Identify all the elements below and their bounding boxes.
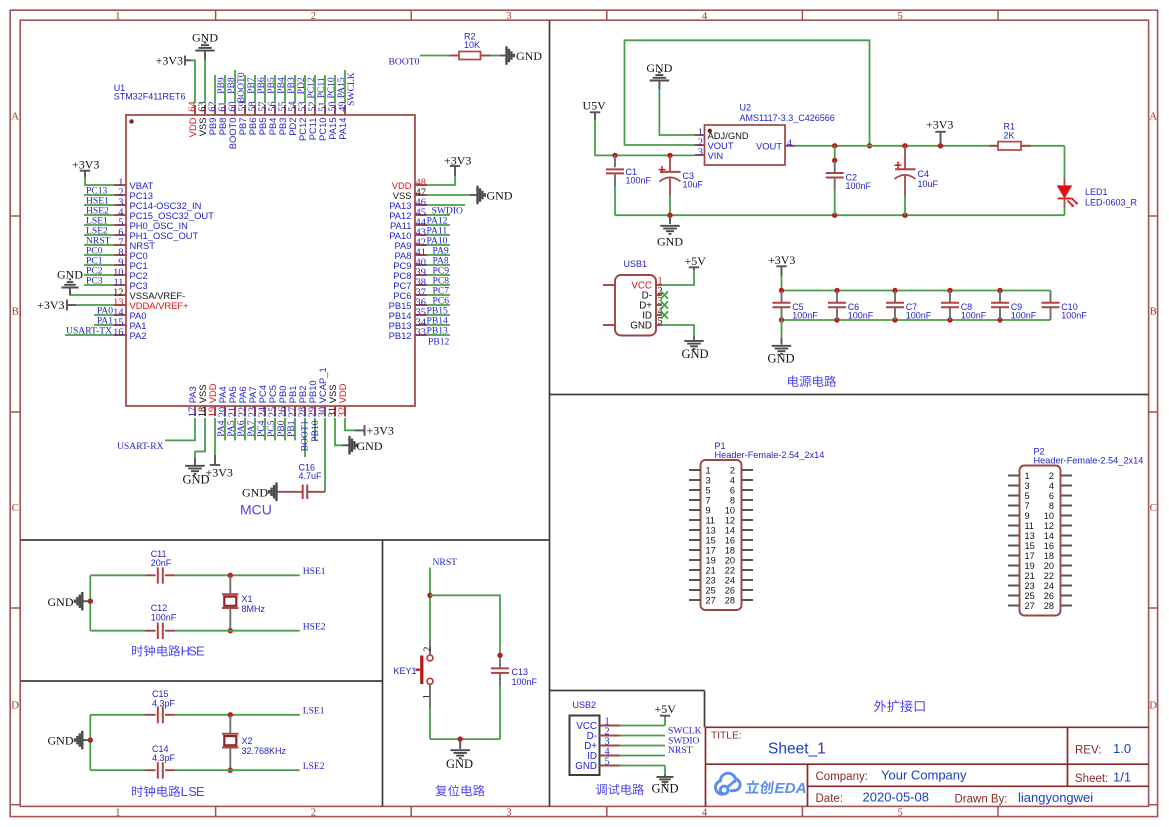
svg-text:5: 5 bbox=[1025, 491, 1030, 501]
wire bbox=[427, 224, 450, 226]
svg-text:14: 14 bbox=[1044, 531, 1054, 541]
svg-text:MCU: MCU bbox=[240, 502, 272, 518]
svg-text:GND: GND bbox=[767, 351, 794, 365]
junction bbox=[892, 317, 897, 322]
wire bbox=[427, 254, 450, 256]
capacitor C1 bbox=[606, 155, 652, 186]
svg-text:1/1: 1/1 bbox=[1113, 769, 1131, 784]
wire bbox=[84, 244, 114, 246]
power +3V3 at pin1 bbox=[72, 157, 99, 177]
wire bbox=[84, 194, 114, 196]
capacitor C16 bbox=[277, 463, 325, 499]
wire bbox=[620, 725, 666, 727]
svg-text:2K: 2K bbox=[1004, 131, 1015, 141]
svg-text:12: 12 bbox=[1044, 521, 1054, 531]
wire bbox=[427, 194, 470, 196]
svg-text:4: 4 bbox=[730, 475, 735, 485]
wire bbox=[90, 714, 145, 716]
svg-text:16: 16 bbox=[113, 328, 123, 339]
svg-text:+3V3: +3V3 bbox=[37, 298, 64, 312]
wire bbox=[254, 75, 256, 103]
label 外扩接口 bbox=[874, 700, 886, 712]
svg-text:STM32F411RET6: STM32F411RET6 bbox=[114, 92, 186, 102]
wire bbox=[234, 418, 236, 440]
svg-text:2: 2 bbox=[1049, 471, 1054, 481]
wire bbox=[420, 55, 449, 57]
svg-text:NRST: NRST bbox=[668, 745, 693, 756]
ground GND at KEY1 bbox=[446, 739, 473, 771]
junction bbox=[832, 143, 837, 148]
svg-text:PA14: PA14 bbox=[337, 118, 348, 140]
wire bbox=[427, 334, 450, 336]
svg-text:+5V: +5V bbox=[685, 254, 707, 268]
junction bbox=[88, 737, 93, 742]
svg-text:3: 3 bbox=[706, 475, 711, 485]
wire bbox=[234, 70, 236, 103]
svg-text:24: 24 bbox=[725, 575, 735, 585]
header P1 bbox=[689, 441, 824, 610]
crystal X1 bbox=[222, 575, 266, 630]
svg-text:4: 4 bbox=[702, 806, 708, 818]
divider vertical clock/reset bbox=[382, 540, 384, 806]
svg-text:HSE2: HSE2 bbox=[303, 621, 326, 632]
svg-text:PB1: PB1 bbox=[286, 420, 297, 437]
wire bbox=[620, 755, 666, 757]
svg-text:18: 18 bbox=[725, 545, 735, 555]
svg-text:8: 8 bbox=[1049, 501, 1054, 511]
svg-text:E: E bbox=[196, 784, 205, 799]
wire bbox=[254, 418, 256, 440]
capacitor C13 bbox=[491, 660, 538, 687]
wire bbox=[614, 186, 616, 215]
divider horizontal power/headers bbox=[550, 394, 1149, 396]
svg-text:GND: GND bbox=[681, 347, 708, 361]
resistor R2 bbox=[449, 32, 491, 60]
wire bbox=[244, 75, 246, 103]
junction bbox=[834, 317, 839, 322]
svg-text:USART-TX: USART-TX bbox=[66, 326, 112, 337]
svg-text:VDD: VDD bbox=[337, 383, 348, 403]
divider horizontal mcu/clock bbox=[21, 539, 550, 541]
power +5V at USB1 bbox=[685, 254, 707, 270]
svg-text:PA2: PA2 bbox=[130, 330, 147, 341]
svg-text:KEY1: KEY1 bbox=[394, 666, 417, 676]
wire bbox=[244, 418, 246, 440]
svg-text:GND: GND bbox=[516, 49, 542, 63]
svg-text:13: 13 bbox=[706, 525, 716, 535]
svg-text:32.768KHz: 32.768KHz bbox=[242, 746, 287, 756]
wire bbox=[165, 418, 195, 440]
wire bbox=[175, 630, 299, 632]
svg-text:7: 7 bbox=[1025, 501, 1030, 511]
svg-text:100nF: 100nF bbox=[1061, 311, 1087, 321]
svg-text:22: 22 bbox=[725, 565, 735, 575]
svg-text:10uF: 10uF bbox=[918, 179, 939, 189]
wire bbox=[175, 574, 299, 576]
divider vertical debug/title bbox=[704, 691, 706, 728]
ground GND flag at pin31 bbox=[342, 436, 383, 455]
header P2 bbox=[1008, 447, 1143, 616]
power U5V bbox=[583, 98, 607, 120]
svg-text:8MHz: 8MHz bbox=[242, 604, 266, 614]
wire bbox=[94, 314, 114, 316]
junction bbox=[832, 158, 837, 163]
svg-text:LED-0603_R: LED-0603_R bbox=[1085, 197, 1138, 207]
divider horizontal hse/lse bbox=[21, 680, 383, 682]
svg-text:23: 23 bbox=[1025, 581, 1035, 591]
wire bbox=[904, 196, 906, 215]
junction bbox=[834, 288, 839, 293]
svg-text:Sheet_1: Sheet_1 bbox=[768, 741, 826, 758]
wire bbox=[214, 418, 216, 455]
ground GND at U2 pin1 bbox=[646, 61, 672, 89]
wire bbox=[664, 717, 666, 726]
svg-text:C4: C4 bbox=[918, 169, 930, 179]
svg-text:4: 4 bbox=[1049, 481, 1054, 491]
junction bbox=[458, 736, 463, 741]
wire bbox=[85, 177, 114, 185]
svg-text:13: 13 bbox=[1025, 531, 1035, 541]
wire bbox=[491, 55, 501, 57]
wire bbox=[84, 284, 114, 286]
title block grid bbox=[706, 727, 1149, 806]
wire bbox=[427, 304, 450, 306]
svg-text:LSE2: LSE2 bbox=[303, 761, 325, 772]
svg-text:GND: GND bbox=[48, 595, 74, 609]
svg-text:B: B bbox=[12, 306, 19, 318]
svg-text:GND: GND bbox=[192, 31, 218, 45]
wire bbox=[90, 769, 145, 771]
svg-text:23: 23 bbox=[706, 575, 716, 585]
svg-text:2020-05-08: 2020-05-08 bbox=[863, 790, 930, 805]
junction bbox=[667, 213, 672, 218]
wire bbox=[324, 418, 326, 492]
resistor R1 bbox=[990, 121, 1031, 150]
wire bbox=[345, 418, 355, 430]
junction bbox=[779, 288, 784, 293]
svg-text:A: A bbox=[11, 110, 19, 122]
junction bbox=[902, 213, 907, 218]
svg-text:20: 20 bbox=[1044, 561, 1054, 571]
wire bbox=[620, 745, 666, 747]
svg-text:1: 1 bbox=[115, 10, 120, 22]
capacitor C6 bbox=[828, 291, 874, 321]
svg-text:A: A bbox=[1149, 110, 1157, 122]
svg-text:20: 20 bbox=[725, 555, 735, 565]
svg-text:6: 6 bbox=[730, 485, 735, 495]
junction bbox=[228, 768, 233, 773]
wire bbox=[595, 120, 695, 155]
svg-text:32: 32 bbox=[337, 407, 348, 417]
power +3V3 at VOUT bbox=[926, 117, 953, 145]
svg-text:5: 5 bbox=[897, 806, 902, 818]
svg-text:2: 2 bbox=[311, 10, 316, 22]
crystal X2 bbox=[222, 715, 287, 770]
svg-text:Date:: Date: bbox=[816, 793, 844, 805]
svg-text:22: 22 bbox=[1044, 571, 1054, 581]
wire bbox=[324, 75, 326, 103]
wire bbox=[782, 290, 1051, 292]
svg-text:1: 1 bbox=[706, 465, 711, 475]
svg-text:100nF: 100nF bbox=[961, 311, 987, 321]
power +3V3 at pin48 bbox=[444, 154, 471, 176]
wire bbox=[620, 735, 666, 737]
wire bbox=[76, 304, 114, 306]
wire bbox=[214, 75, 216, 103]
power +3V3 at pin32 bbox=[355, 424, 394, 438]
svg-text:+3V3: +3V3 bbox=[72, 157, 99, 171]
svg-text:4.3pF: 4.3pF bbox=[152, 753, 176, 763]
svg-text:L: L bbox=[181, 784, 188, 799]
wire bbox=[334, 75, 336, 103]
wire bbox=[834, 146, 836, 161]
wire bbox=[427, 274, 450, 276]
wire bbox=[304, 75, 306, 103]
wire bbox=[84, 224, 114, 226]
svg-text:GND: GND bbox=[651, 781, 678, 795]
svg-text:USART-RX: USART-RX bbox=[117, 441, 164, 452]
ground GND below C5 bbox=[767, 320, 794, 365]
svg-text:16: 16 bbox=[1044, 541, 1054, 551]
wire bbox=[430, 595, 500, 660]
wire bbox=[430, 738, 500, 740]
wire bbox=[84, 204, 114, 206]
junction bbox=[832, 213, 837, 218]
svg-text:C: C bbox=[1150, 502, 1157, 514]
svg-text:15: 15 bbox=[706, 535, 716, 545]
svg-text:14: 14 bbox=[725, 525, 735, 535]
svg-text:100nF: 100nF bbox=[846, 181, 872, 191]
svg-text:3: 3 bbox=[506, 806, 511, 818]
svg-text:28: 28 bbox=[1044, 601, 1054, 611]
ground GND flag at LSE bbox=[48, 731, 91, 750]
svg-text:2: 2 bbox=[423, 647, 434, 652]
wire bbox=[429, 708, 431, 740]
wire bbox=[664, 766, 666, 775]
svg-text:26: 26 bbox=[725, 585, 735, 595]
wire bbox=[427, 204, 465, 206]
wire bbox=[175, 714, 299, 716]
ground GND at pin18 bbox=[182, 458, 209, 487]
wire bbox=[264, 418, 266, 440]
capacitor C5 bbox=[773, 291, 819, 321]
svg-text:27: 27 bbox=[706, 595, 716, 605]
wire bbox=[84, 214, 114, 216]
svg-text:Sheet:: Sheet: bbox=[1075, 773, 1108, 785]
svg-text:+3V3: +3V3 bbox=[156, 54, 183, 68]
wire bbox=[427, 314, 450, 316]
ground GND below C3 bbox=[657, 215, 683, 248]
wire bbox=[662, 270, 694, 285]
wire bbox=[427, 284, 450, 286]
svg-text:GND: GND bbox=[630, 321, 652, 332]
svg-text:VIN: VIN bbox=[708, 150, 724, 161]
junction bbox=[228, 573, 233, 578]
wire bbox=[335, 418, 342, 445]
label 调试电路 bbox=[596, 784, 607, 795]
svg-text:HSE1: HSE1 bbox=[303, 566, 326, 577]
wire bbox=[782, 319, 1051, 321]
svg-text:U2: U2 bbox=[740, 103, 752, 113]
svg-text:28: 28 bbox=[725, 595, 735, 605]
junction bbox=[997, 317, 1002, 322]
wire bbox=[427, 234, 450, 236]
svg-text:3: 3 bbox=[506, 10, 511, 22]
capacitor C15 bbox=[145, 689, 176, 723]
ground GND at USB2 bbox=[651, 775, 678, 796]
junction bbox=[427, 593, 432, 598]
junction bbox=[938, 143, 943, 148]
junction bbox=[228, 628, 233, 633]
svg-text:USB1: USB1 bbox=[624, 259, 648, 269]
wire bbox=[429, 568, 431, 640]
svg-text:PB13: PB13 bbox=[427, 326, 449, 337]
svg-text:GND: GND bbox=[242, 485, 268, 499]
svg-text:BOOT0: BOOT0 bbox=[389, 56, 420, 67]
svg-text:25: 25 bbox=[706, 585, 716, 595]
svg-text:+3V3: +3V3 bbox=[444, 154, 471, 168]
svg-text:LED1: LED1 bbox=[1085, 187, 1108, 197]
svg-text:11: 11 bbox=[706, 515, 716, 525]
svg-text:2: 2 bbox=[730, 465, 735, 475]
wire bbox=[427, 294, 450, 296]
svg-text:Company:: Company: bbox=[816, 771, 868, 783]
junction bbox=[88, 599, 93, 604]
wire bbox=[625, 40, 870, 146]
wire bbox=[264, 75, 266, 103]
wire bbox=[659, 89, 694, 135]
svg-text:15: 15 bbox=[1025, 541, 1035, 551]
ground GND flag at HSE bbox=[48, 592, 91, 611]
svg-text:17: 17 bbox=[706, 545, 716, 555]
svg-text:Header-Female-2.54_2x14: Header-Female-2.54_2x14 bbox=[1034, 456, 1144, 466]
svg-text:5: 5 bbox=[706, 485, 711, 495]
capacitor C3 bbox=[659, 155, 704, 196]
svg-text:Your Company: Your Company bbox=[881, 768, 967, 783]
capacitor C4 bbox=[895, 146, 939, 196]
svg-text:+3V3: +3V3 bbox=[768, 253, 795, 267]
capacitor C12 bbox=[145, 603, 177, 639]
power +3V3 at pin64 bbox=[156, 54, 191, 68]
wire bbox=[1064, 146, 1066, 178]
power +3V3 at rail bbox=[768, 253, 795, 276]
wire bbox=[89, 715, 91, 770]
ground GND flag at R2 bbox=[500, 46, 542, 65]
wire bbox=[499, 686, 501, 739]
power +3V3 at pin19 bbox=[206, 455, 233, 479]
wire bbox=[89, 575, 91, 630]
svg-text:10K: 10K bbox=[464, 40, 480, 50]
wire bbox=[427, 264, 450, 266]
svg-text:SWCLK: SWCLK bbox=[346, 72, 357, 106]
svg-text:PC3: PC3 bbox=[86, 276, 103, 287]
wire bbox=[669, 196, 671, 215]
wire bbox=[834, 190, 836, 215]
wire bbox=[224, 418, 226, 440]
svg-text:21: 21 bbox=[706, 565, 716, 575]
svg-text:10: 10 bbox=[1044, 511, 1054, 521]
regulator U2 AMS1117-3.3 bbox=[695, 103, 835, 165]
wire bbox=[204, 60, 206, 103]
wire bbox=[284, 75, 286, 103]
svg-text:24: 24 bbox=[1044, 581, 1054, 591]
divider vertical mcu/power bbox=[549, 20, 551, 806]
svg-text:17: 17 bbox=[1025, 551, 1035, 561]
svg-text:100nF: 100nF bbox=[1011, 311, 1037, 321]
wire bbox=[70, 289, 114, 296]
svg-text:GND: GND bbox=[575, 761, 597, 772]
ground GND at pin12 bbox=[57, 267, 83, 295]
svg-text:USB2: USB2 bbox=[573, 700, 597, 710]
wire bbox=[294, 418, 296, 440]
svg-text:PB10: PB10 bbox=[310, 420, 321, 442]
frame row letters bbox=[11, 110, 1157, 711]
svg-text:1: 1 bbox=[115, 806, 120, 818]
svg-text:X2: X2 bbox=[242, 736, 253, 746]
svg-text:GND: GND bbox=[48, 734, 74, 748]
usb connector USB1 bbox=[603, 259, 668, 335]
mcu U1 STM32F411RET6 bbox=[113, 83, 427, 417]
svg-text:12: 12 bbox=[725, 515, 735, 525]
ground GND at USB1 bbox=[681, 336, 708, 361]
svg-text:20nF: 20nF bbox=[151, 558, 172, 568]
svg-text:3: 3 bbox=[1025, 481, 1030, 491]
svg-text:5: 5 bbox=[605, 756, 610, 767]
wire bbox=[195, 418, 205, 458]
svg-text:E: E bbox=[196, 644, 205, 659]
led LED1 bbox=[1058, 178, 1138, 208]
svg-text:C13: C13 bbox=[512, 667, 529, 677]
svg-text:3: 3 bbox=[698, 148, 703, 159]
capacitor C2 bbox=[826, 161, 872, 191]
svg-text:TITLE:: TITLE: bbox=[711, 731, 742, 742]
svg-text:9: 9 bbox=[1025, 511, 1030, 521]
svg-text:25: 25 bbox=[1025, 591, 1035, 601]
svg-text:19: 19 bbox=[706, 555, 716, 565]
junction bbox=[228, 712, 233, 717]
logo EasyEDA bbox=[715, 773, 806, 797]
svg-text:4: 4 bbox=[702, 10, 708, 22]
svg-text:1: 1 bbox=[1025, 471, 1030, 481]
usb connector USB2 bbox=[570, 700, 620, 775]
svg-text:D: D bbox=[1149, 700, 1157, 712]
junction bbox=[947, 317, 952, 322]
svg-text:+3V3: +3V3 bbox=[367, 424, 394, 438]
svg-text:100nF: 100nF bbox=[626, 176, 652, 186]
svg-text:GND: GND bbox=[487, 189, 513, 203]
svg-text:GND: GND bbox=[57, 267, 83, 281]
wire bbox=[84, 274, 114, 276]
capacitor C10 bbox=[1042, 291, 1088, 321]
capacitor C8 bbox=[941, 291, 987, 321]
wire bbox=[314, 75, 316, 103]
svg-text:U5V: U5V bbox=[583, 98, 607, 112]
wire bbox=[90, 630, 145, 632]
junction bbox=[997, 288, 1002, 293]
wire bbox=[344, 70, 346, 103]
svg-text:C: C bbox=[12, 502, 19, 514]
wire bbox=[94, 324, 114, 326]
svg-text:VOUT: VOUT bbox=[756, 141, 782, 152]
power +5V at USB2 bbox=[655, 702, 677, 717]
wire bbox=[427, 324, 450, 326]
svg-text:PB12: PB12 bbox=[389, 330, 412, 341]
svg-text:4.7uF: 4.7uF bbox=[299, 471, 323, 481]
divider horizontal headers/debug bbox=[550, 690, 705, 692]
svg-text:LSE1: LSE1 bbox=[303, 706, 325, 717]
capacitor C9 bbox=[991, 291, 1037, 321]
junction bbox=[612, 153, 617, 158]
